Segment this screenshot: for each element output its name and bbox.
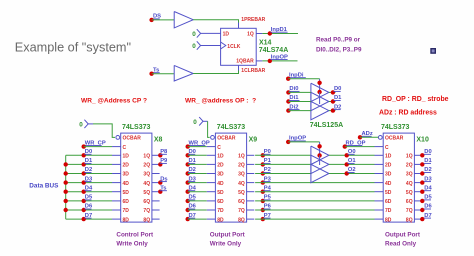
- svg-text:C: C: [217, 145, 221, 151]
- svg-text:ADz : RD address: ADz : RD address: [379, 109, 437, 116]
- svg-text:Output Port: Output Port: [385, 232, 421, 239]
- svg-text:Data BUS: Data BUS: [29, 182, 59, 189]
- svg-text:74LS373: 74LS373: [381, 124, 410, 131]
- svg-text:1D: 1D: [223, 32, 230, 38]
- svg-text:RD_OP : RD_ strobe: RD_OP : RD_ strobe: [382, 96, 449, 103]
- svg-text:C: C: [123, 145, 127, 151]
- svg-text:0: 0: [192, 31, 196, 38]
- svg-text:OCBAR: OCBAR: [385, 136, 404, 142]
- svg-text:WR_ @address OP : ?: WR_ @address OP : ?: [185, 98, 256, 105]
- svg-text:OCBAR: OCBAR: [123, 136, 142, 142]
- svg-text:3D: 3D: [217, 172, 224, 178]
- svg-text:1QBAR: 1QBAR: [236, 59, 254, 65]
- svg-text:6Q: 6Q: [238, 199, 245, 205]
- svg-text:0: 0: [79, 122, 83, 129]
- svg-text:8D: 8D: [123, 217, 130, 223]
- svg-text:4D: 4D: [217, 181, 224, 187]
- svg-text:OCBAR: OCBAR: [217, 136, 236, 142]
- svg-text:1D: 1D: [123, 154, 130, 160]
- svg-text:2D: 2D: [385, 163, 392, 169]
- svg-text:2Q: 2Q: [238, 163, 245, 169]
- svg-text:2D: 2D: [123, 163, 130, 169]
- svg-text:7D: 7D: [385, 208, 392, 214]
- svg-text:1Q: 1Q: [238, 154, 245, 160]
- svg-text:1Q: 1Q: [406, 154, 413, 160]
- svg-text:2Q: 2Q: [406, 163, 413, 169]
- svg-text:5Q: 5Q: [238, 190, 245, 196]
- svg-text:X14: X14: [259, 39, 272, 46]
- svg-text:5D: 5D: [217, 190, 224, 196]
- svg-text:C: C: [385, 145, 389, 151]
- svg-text:Output Port: Output Port: [210, 232, 246, 239]
- svg-text:WR_ @Address CP ?: WR_ @Address CP ?: [81, 98, 147, 105]
- svg-text:3D: 3D: [123, 172, 130, 178]
- svg-text:Read Only: Read Only: [385, 241, 417, 248]
- svg-text:X9: X9: [249, 137, 258, 144]
- svg-text:1CLRBAR: 1CLRBAR: [241, 68, 265, 74]
- svg-text:2D: 2D: [217, 163, 224, 169]
- svg-text:6Q: 6Q: [406, 199, 413, 205]
- svg-text:6D: 6D: [217, 199, 224, 205]
- svg-text:5Q: 5Q: [143, 190, 150, 196]
- svg-text:1PREBAR: 1PREBAR: [241, 17, 265, 23]
- svg-text:0: 0: [193, 119, 197, 126]
- svg-text:7D: 7D: [123, 208, 130, 214]
- svg-text:1CLK: 1CLK: [227, 44, 240, 50]
- svg-text:X8: X8: [154, 137, 163, 144]
- svg-text:3Q: 3Q: [238, 172, 245, 178]
- svg-text:6Q: 6Q: [143, 199, 150, 205]
- svg-text:2Q: 2Q: [143, 163, 150, 169]
- svg-text:Write Only: Write Only: [116, 241, 148, 248]
- svg-text:8D: 8D: [217, 217, 224, 223]
- svg-text:1Q: 1Q: [247, 32, 254, 38]
- svg-text:74LS74A: 74LS74A: [259, 47, 289, 54]
- svg-text:1Q: 1Q: [143, 154, 150, 160]
- svg-text:7Q: 7Q: [406, 208, 413, 214]
- svg-text:7D: 7D: [217, 208, 224, 214]
- svg-text:4D: 4D: [385, 181, 392, 187]
- svg-text:4Q: 4Q: [406, 181, 413, 187]
- svg-text:5Q: 5Q: [406, 190, 413, 196]
- svg-text:1D: 1D: [385, 154, 392, 160]
- svg-text:X10: X10: [416, 137, 429, 144]
- svg-text:6D: 6D: [385, 199, 392, 205]
- svg-text:DI0..DI2, P3..P9: DI0..DI2, P3..P9: [316, 46, 362, 53]
- svg-text:4Q: 4Q: [143, 181, 150, 187]
- svg-text:4D: 4D: [123, 181, 130, 187]
- svg-text:Control Port: Control Port: [116, 232, 154, 239]
- svg-text:Read P0..P9 or: Read P0..P9 or: [316, 36, 361, 43]
- svg-text:3Q: 3Q: [406, 172, 413, 178]
- svg-text:8Q: 8Q: [143, 217, 150, 223]
- svg-text:74LS373: 74LS373: [217, 124, 246, 131]
- svg-text:6D: 6D: [123, 199, 130, 205]
- svg-text:74LS125A: 74LS125A: [310, 122, 343, 129]
- svg-text:7Q: 7Q: [238, 208, 245, 214]
- svg-text:Example of "system": Example of "system": [15, 41, 131, 55]
- svg-text:0: 0: [192, 43, 196, 50]
- svg-text:7Q: 7Q: [143, 208, 150, 214]
- svg-text:4Q: 4Q: [238, 181, 245, 187]
- svg-text:1D: 1D: [217, 154, 224, 160]
- svg-text:8D: 8D: [385, 217, 392, 223]
- svg-text:Write Only: Write Only: [210, 241, 242, 248]
- svg-text:8Q: 8Q: [238, 217, 245, 223]
- svg-text:3D: 3D: [385, 172, 392, 178]
- svg-text:8Q: 8Q: [406, 217, 413, 223]
- svg-text:5D: 5D: [385, 190, 392, 196]
- svg-text:3Q: 3Q: [143, 172, 150, 178]
- svg-text:74LS373: 74LS373: [122, 124, 151, 131]
- svg-text:5D: 5D: [123, 190, 130, 196]
